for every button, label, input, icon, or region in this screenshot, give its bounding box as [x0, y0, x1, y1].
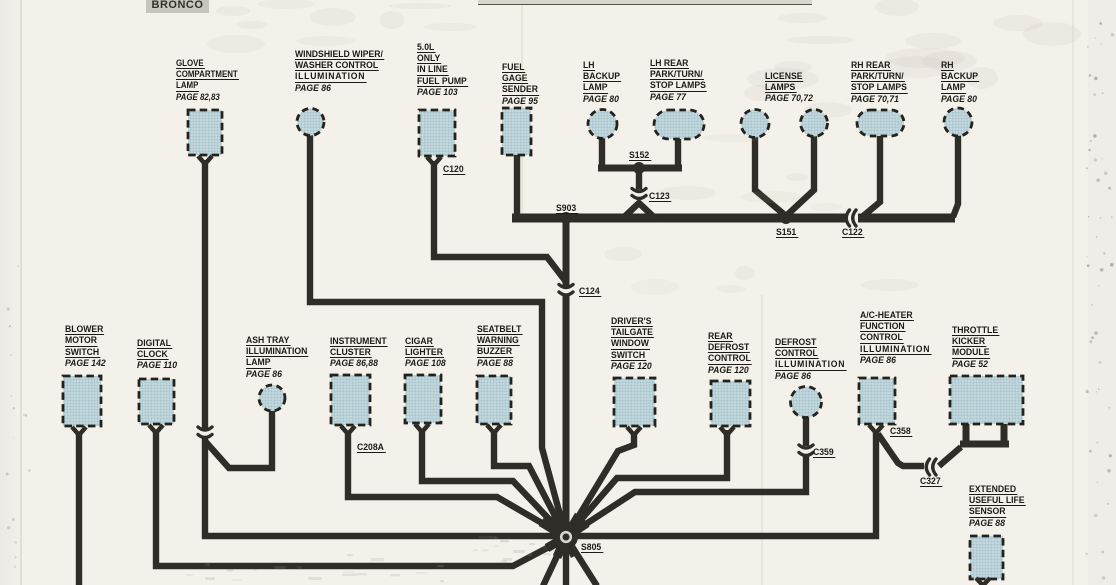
- label C358: [890, 426, 913, 437]
- node S903: [560, 212, 572, 224]
- wire S805 right horizontal to A/C heater: [566, 432, 876, 536]
- wire S805 ray down-left: [543, 537, 566, 585]
- label S151: [776, 227, 798, 238]
- wire bus left segment: [512, 214, 846, 223]
- wire defrost illumination upper: [803, 416, 809, 446]
- label windshield wiper washer control illumination: [295, 49, 384, 94]
- label A/C-heater function control illumination: [860, 310, 931, 366]
- stadium LH rear park/turn/stop lamps: [654, 110, 704, 139]
- label C123: [649, 191, 672, 202]
- box blower motor switch: [63, 376, 101, 426]
- V-notch glove: [198, 156, 212, 164]
- label C120: [443, 164, 466, 175]
- paper edge shading left: [0, 0, 22, 585]
- wire windshield wiper to S805: [310, 134, 566, 537]
- wire S805 ray down-right: [566, 537, 597, 585]
- wire instrument cluster to S805: [348, 432, 566, 537]
- node S152: [633, 162, 645, 174]
- wire digital clock to S805: [156, 431, 566, 566]
- label C124: [579, 286, 602, 297]
- V-notch fuel pump C120: [427, 157, 441, 165]
- label S805: [581, 542, 603, 553]
- S805 core fat stubs: [541, 522, 566, 537]
- circle defrost control illumination: [791, 387, 822, 418]
- wire ash tray branch: [205, 410, 272, 468]
- label LH backup lamp: [583, 60, 621, 105]
- label instrument cluster: [330, 336, 388, 369]
- wire defrost illumination lower to S805: [566, 455, 806, 537]
- label digital clock: [137, 338, 178, 371]
- wire glove lamp upper: [202, 160, 208, 429]
- wire S152 to C123: [636, 168, 642, 190]
- V-notch extended sensor: [976, 578, 990, 585]
- label blower motor switch: [65, 324, 107, 369]
- label driver's tailgate window switch: [611, 316, 654, 372]
- wire main vertical C124 to S805: [563, 294, 570, 537]
- connector C123 symbol: [632, 189, 646, 192]
- label C208A: [357, 442, 386, 453]
- wire rear defrost to S805: [566, 430, 727, 537]
- wire tailgate switch to S805: [566, 433, 634, 537]
- label seatbelt warning buzzer: [477, 324, 522, 369]
- V-notch rear defrost: [720, 427, 734, 435]
- circle LH backup lamp: [588, 110, 617, 139]
- node S151: [780, 212, 792, 224]
- paper seam right: [1072, 0, 1074, 585]
- label fuel gage sender: [502, 62, 539, 107]
- label RH backup lamp: [941, 60, 979, 105]
- box glove compartment lamp: [188, 110, 222, 155]
- paper edge shading right: [1088, 0, 1116, 585]
- wire C327 to throttle kicker: [939, 447, 961, 466]
- box throttle kicker module: [950, 376, 1023, 424]
- wire C358 to C327: [878, 434, 924, 466]
- label license lamps: [765, 71, 814, 104]
- top right cropped header band: [478, 0, 812, 5]
- label extended useful life sensor: [969, 484, 1025, 529]
- box rear defrost control: [711, 381, 750, 426]
- wire LH rear lamps: [675, 136, 681, 169]
- stadium RH rear park/turn/stop lamps: [857, 110, 904, 136]
- label C359: [813, 447, 836, 458]
- fold seam lower right: [761, 295, 763, 585]
- label S903: [556, 203, 578, 214]
- wire main vertical S903 to C124: [563, 218, 570, 288]
- box 5.0L in line fuel pump: [419, 110, 455, 156]
- wire seatbelt buzzer to S805: [494, 430, 566, 537]
- node S805 splice: [554, 525, 578, 549]
- paper seam left: [20, 0, 22, 585]
- V-notch tailgate: [627, 427, 641, 435]
- label cigar lighter: [405, 336, 447, 369]
- label S152: [629, 150, 651, 161]
- connector C122 symbol: [846, 210, 849, 226]
- circle windshield wiper illumination: [297, 109, 324, 136]
- wire license lamp 2: [786, 136, 814, 216]
- wire C123 fork to bus: [621, 203, 657, 220]
- wire kicker right stub: [1001, 424, 1008, 442]
- label LH rear park/turn/stop lamps: [650, 58, 707, 103]
- fold seam top middle: [521, 0, 523, 220]
- label C122: [842, 227, 865, 238]
- circle license lamp 2: [801, 110, 828, 137]
- wire LH backup lamp: [599, 135, 605, 169]
- label ash tray illumination lamp: [246, 335, 308, 380]
- V-notch cluster: [341, 426, 355, 434]
- label 5.0L only in line fuel pump: [417, 42, 468, 98]
- BRONCO title box: [146, 0, 209, 13]
- V-notch clock: [149, 425, 163, 433]
- wire RH rear lamps: [862, 135, 880, 217]
- wire glove lamp lower to S805: [205, 437, 566, 536]
- box extended useful life sensor: [970, 536, 1003, 579]
- box seatbelt warning buzzer: [477, 376, 511, 424]
- box fuel gage sender: [502, 108, 531, 155]
- box A/C-heater function control illumination: [859, 378, 895, 424]
- box driver's tailgate window switch: [614, 378, 655, 426]
- connector C124 symbol: [559, 285, 573, 288]
- V-notch A/C heater C358: [869, 425, 883, 433]
- wire kicker bottom bar: [960, 441, 1009, 448]
- wire blower motor switch: [76, 433, 82, 585]
- wire kicker left stub: [963, 424, 970, 442]
- wire S152 bar: [598, 165, 682, 172]
- wire fuel gage sender: [514, 152, 520, 216]
- label defrost control illumination: [775, 337, 846, 382]
- connector C359 symbol: [799, 445, 813, 448]
- label glove compartment lamp: [176, 58, 239, 103]
- label throttle kicker module: [952, 325, 999, 370]
- V-notch cigar: [415, 424, 429, 432]
- circle RH backup lamp: [944, 108, 972, 136]
- connector crimp on glove wire: [198, 427, 212, 430]
- V-notch blower: [72, 427, 86, 435]
- label rear defrost control: [708, 331, 752, 376]
- circle ash tray illumination lamp: [259, 385, 285, 411]
- wire fuel pump to C124 junction: [434, 161, 567, 283]
- wire RH backup lamp: [953, 135, 958, 217]
- box instrument cluster: [331, 375, 370, 425]
- connector C327 symbol: [926, 459, 929, 475]
- label C327: [920, 476, 943, 487]
- circle license lamp 1: [741, 110, 769, 138]
- V-notch seatbelt: [487, 425, 501, 433]
- box digital clock: [139, 379, 174, 424]
- wire bus right segment: [858, 214, 955, 223]
- wire license lamp 1: [755, 136, 786, 216]
- box cigar lighter: [405, 375, 441, 423]
- wire cigar lighter to S805: [422, 430, 566, 537]
- wire S805 ray down: [563, 537, 569, 585]
- label RH rear park/turn/stop lamps: [851, 60, 908, 105]
